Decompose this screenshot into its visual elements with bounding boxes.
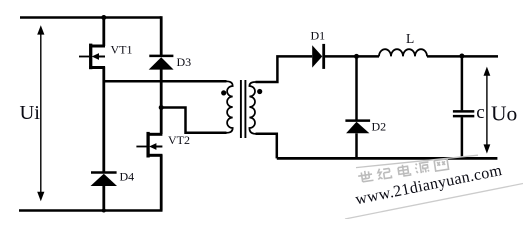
- wire top rail left: [20, 16, 161, 19]
- transistor VT2: [136, 132, 162, 158]
- wire VT1 source down to D4: [102, 67, 105, 173]
- wire top rail right segment down to D3: [160, 16, 163, 55]
- wire secondary bottom to output ground rail: [256, 134, 277, 159]
- svg-text:D4: D4: [120, 170, 135, 184]
- D4 triangle: [91, 174, 118, 186]
- capacitor C: [453, 111, 474, 116]
- wire VT2 drain tap to primary bottom: [161, 108, 226, 133]
- diode D3: [149, 56, 174, 70]
- svg-text:D2: D2: [372, 120, 387, 134]
- svg-text:Ui: Ui: [20, 102, 41, 124]
- wire bottom rail left: [19, 209, 163, 212]
- VT2 bottom (source) bar: [147, 154, 163, 157]
- transistor VT1: [79, 44, 105, 70]
- VT2 top (drain) bar: [147, 133, 162, 136]
- node D2 top junction dot: [354, 54, 359, 59]
- D2 triangle: [346, 122, 369, 134]
- VT1 body arrow stub: [96, 56, 105, 58]
- svg-text:L: L: [406, 31, 414, 46]
- wire D4 to bottom rail: [102, 186, 105, 211]
- VT2 gate lead: [136, 146, 146, 148]
- node D4 bottom junction dot: [102, 209, 106, 213]
- D1 cathode bar: [322, 44, 325, 69]
- watermark rule lower: [345, 184, 523, 220]
- char 网: [434, 159, 448, 171]
- char 源: [415, 162, 430, 174]
- D1 triangle: [312, 45, 322, 67]
- VT1 arrowhead: [92, 53, 99, 60]
- wire D1 cathode to inductor: [325, 55, 379, 58]
- diode D1: [312, 44, 324, 69]
- svg-text:Uo: Uo: [491, 101, 517, 125]
- VT1 bottom (source) bar: [89, 66, 105, 69]
- wire VT1 drain: [102, 18, 105, 47]
- svg-text:VT1: VT1: [111, 43, 133, 57]
- transformer T primary polarity dot: [221, 90, 226, 95]
- C top plate: [453, 110, 474, 113]
- char 纪: [377, 167, 392, 179]
- arrow Uo dimension arrow: [484, 67, 491, 154]
- VT2 arrowhead: [149, 143, 156, 150]
- svg-text:D3: D3: [177, 55, 192, 69]
- D2 cathode bar: [345, 119, 370, 122]
- wire D3 anode to VT2 drain: [160, 69, 163, 134]
- svg-text:www.21dianyuan.com: www.21dianyuan.com: [354, 162, 504, 208]
- transformer T primary winding: [227, 81, 233, 133]
- inductor L: [379, 49, 427, 56]
- C bottom plate: [453, 115, 474, 118]
- svg-text:VT2: VT2: [168, 133, 190, 147]
- wire VT2 source to bottom rail: [160, 155, 163, 211]
- wire D2 anode to ground rail: [355, 133, 358, 158]
- node VT2 drain tap junction dot: [159, 105, 164, 110]
- D4 cathode bar: [91, 171, 117, 174]
- wire output ground rail: [277, 157, 498, 160]
- diode D4: [91, 173, 118, 187]
- wire C branch upper: [461, 56, 464, 110]
- wire secondary top to D1: [256, 56, 313, 82]
- transformer T secondary winding: [249, 82, 255, 134]
- transformer T secondary polarity dot: [257, 89, 262, 94]
- VT2 channel bar: [146, 132, 149, 158]
- VT2 body arrow stub: [153, 146, 162, 148]
- svg-text:c: c: [476, 102, 484, 123]
- D3 triangle: [149, 57, 174, 69]
- watermark CJK text 世纪电源网: [358, 158, 449, 183]
- D3 cathode bar: [149, 55, 173, 58]
- char 世: [358, 170, 374, 183]
- diode D2: [345, 121, 370, 134]
- arrow Ui dimension arrow: [37, 25, 44, 201]
- wire crossover VT1 source to primary top: [104, 80, 227, 83]
- watermark rule upper: [356, 155, 478, 167]
- transformer T core line right: [244, 80, 246, 138]
- svg-text:D1: D1: [311, 28, 326, 42]
- transformer T core line left: [240, 80, 242, 138]
- wire D2 branch upper: [355, 56, 358, 120]
- wire C to ground rail: [461, 117, 464, 158]
- VT1 channel bar: [89, 44, 92, 70]
- node C top junction dot: [459, 54, 464, 59]
- node VT1 drain junction dot: [101, 15, 106, 20]
- wire inductor to output + terminal: [427, 55, 498, 58]
- char 电: [398, 164, 411, 177]
- watermark 21dianyuan: [345, 155, 523, 219]
- VT1 gate lead: [79, 56, 89, 58]
- VT1 top (drain) bar: [90, 45, 105, 48]
